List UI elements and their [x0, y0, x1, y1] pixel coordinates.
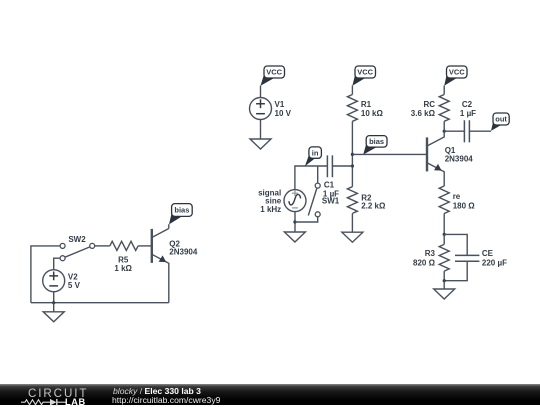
footer bar	[0, 384, 540, 405]
svg-text:V1: V1	[275, 100, 285, 109]
capacitor C2 1uF	[460, 100, 476, 142]
svg-text:bias: bias	[174, 206, 189, 215]
svg-text:C2: C2	[462, 100, 473, 109]
node R3/CE bottom	[443, 279, 446, 282]
wire node to ground	[53, 303, 55, 312]
flag out	[491, 120, 501, 131]
resistor re 180	[439, 186, 475, 214]
svg-text:R3: R3	[425, 249, 436, 258]
svg-text:C1: C1	[324, 181, 335, 190]
svg-text:bias: bias	[369, 137, 384, 146]
ground at V1	[250, 139, 271, 149]
svg-text:3.6 kΩ: 3.6 kΩ	[411, 109, 436, 118]
resistor R1 10k	[347, 95, 383, 122]
svg-text:R5: R5	[118, 255, 129, 264]
node collector	[443, 130, 446, 133]
svg-text:2N3904: 2N3904	[169, 248, 198, 257]
svg-text:in: in	[312, 148, 319, 157]
wire node to C2	[444, 130, 464, 132]
footer url text	[112, 395, 220, 405]
wire VCC to RC	[443, 86, 445, 95]
svg-text:R1: R1	[361, 100, 372, 109]
transistor Q1 2N3904	[427, 131, 473, 186]
resistor R5 1k	[95, 241, 152, 273]
wire bias to Q2 collector	[168, 224, 170, 228]
wire R1 to R2	[351, 121, 353, 186]
svg-text:180 Ω: 180 Ω	[453, 201, 476, 210]
node R3/CE top	[443, 233, 446, 236]
flag bias at Q2	[169, 211, 182, 225]
CircuitLab logo	[28, 387, 88, 400]
switch SW2	[60, 235, 95, 261]
svg-text:5 V: 5 V	[68, 281, 81, 290]
wire re to R3 node	[443, 214, 445, 235]
resistor RC 3.6k	[411, 95, 449, 122]
signal source V3 sine 1kHz	[258, 188, 306, 214]
node C1 join	[351, 164, 354, 167]
svg-text:VCC: VCC	[449, 68, 465, 77]
wire signal to ground	[294, 212, 296, 232]
node base divider	[351, 153, 354, 156]
wire V1 to ground	[260, 120, 262, 140]
svg-text:2N3904: 2N3904	[445, 155, 474, 164]
wire V2 to switch	[54, 258, 60, 270]
svg-text:RC: RC	[423, 100, 435, 109]
svg-text:VCC: VCC	[357, 68, 373, 77]
wire C2 to out	[469, 130, 491, 132]
ground at V2	[43, 312, 64, 322]
resistor R3 820	[413, 234, 449, 280]
svg-text:out: out	[495, 115, 507, 124]
wire bottom rail	[31, 302, 169, 304]
svg-text:2.2 kΩ: 2.2 kΩ	[361, 201, 386, 210]
resistor R2 2.2k	[347, 187, 386, 214]
flag bias at divider	[363, 142, 376, 155]
node V2 ground	[52, 301, 55, 304]
wire R2 to ground	[351, 213, 353, 232]
wire signal row	[295, 166, 328, 190]
ground at R2	[342, 232, 363, 242]
svg-text:SW1: SW1	[322, 196, 340, 205]
svg-text:CE: CE	[482, 249, 494, 258]
ground at R3	[434, 289, 455, 299]
svg-text:VCC: VCC	[266, 68, 282, 77]
node signal/switch return	[293, 220, 296, 223]
flag VCC at RC	[444, 73, 457, 86]
flag in	[305, 153, 315, 166]
wire switch to left rail	[31, 246, 60, 303]
svg-text:1 µF: 1 µF	[460, 109, 476, 118]
svg-text:10 V: 10 V	[275, 109, 292, 118]
wire node to ground	[443, 281, 445, 289]
switch SW1	[295, 166, 320, 222]
wire VCC to R1	[351, 86, 353, 95]
svg-text:SW2: SW2	[68, 235, 86, 244]
svg-text:220 µF: 220 µF	[482, 258, 507, 267]
wire RC to node	[443, 121, 445, 131]
wire divider to Q1 base	[352, 153, 427, 155]
svg-text:V2: V2	[68, 272, 78, 281]
ground at signal	[284, 232, 305, 242]
wire VCC to V1	[260, 86, 262, 98]
flag VCC at R1	[352, 73, 365, 86]
svg-text:820 Ω: 820 Ω	[413, 258, 436, 267]
footer title text	[113, 386, 201, 396]
svg-text:1 kΩ: 1 kΩ	[114, 264, 132, 273]
wire C1 to divider	[332, 165, 352, 167]
transistor Q2 2N3904	[152, 229, 198, 303]
svg-text:10 kΩ: 10 kΩ	[361, 109, 384, 118]
voltage source V1	[250, 98, 292, 120]
capacitor C1 1uF	[323, 155, 339, 198]
capacitor CE 220uF	[444, 234, 507, 280]
flag VCC at V1	[261, 73, 275, 86]
svg-text:re: re	[453, 192, 461, 201]
wire V2 to rail	[53, 292, 55, 303]
voltage source V2	[43, 270, 81, 292]
svg-text:1 kHz: 1 kHz	[260, 205, 281, 214]
